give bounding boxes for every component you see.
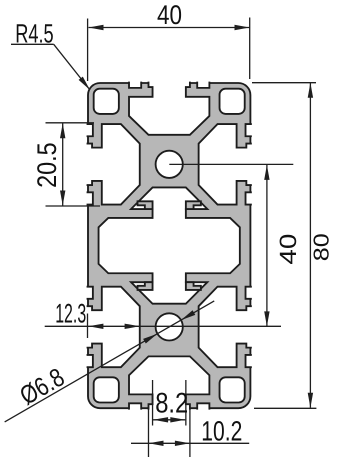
svg-text:20.5: 20.5 — [32, 142, 62, 188]
svg-text:12.3: 12.3 — [55, 299, 86, 329]
svg-text:40: 40 — [157, 0, 182, 30]
svg-text:10.2: 10.2 — [201, 416, 242, 447]
svg-text:80: 80 — [310, 233, 334, 261]
svg-text:8.2: 8.2 — [155, 388, 188, 420]
svg-text:40: 40 — [275, 234, 301, 265]
